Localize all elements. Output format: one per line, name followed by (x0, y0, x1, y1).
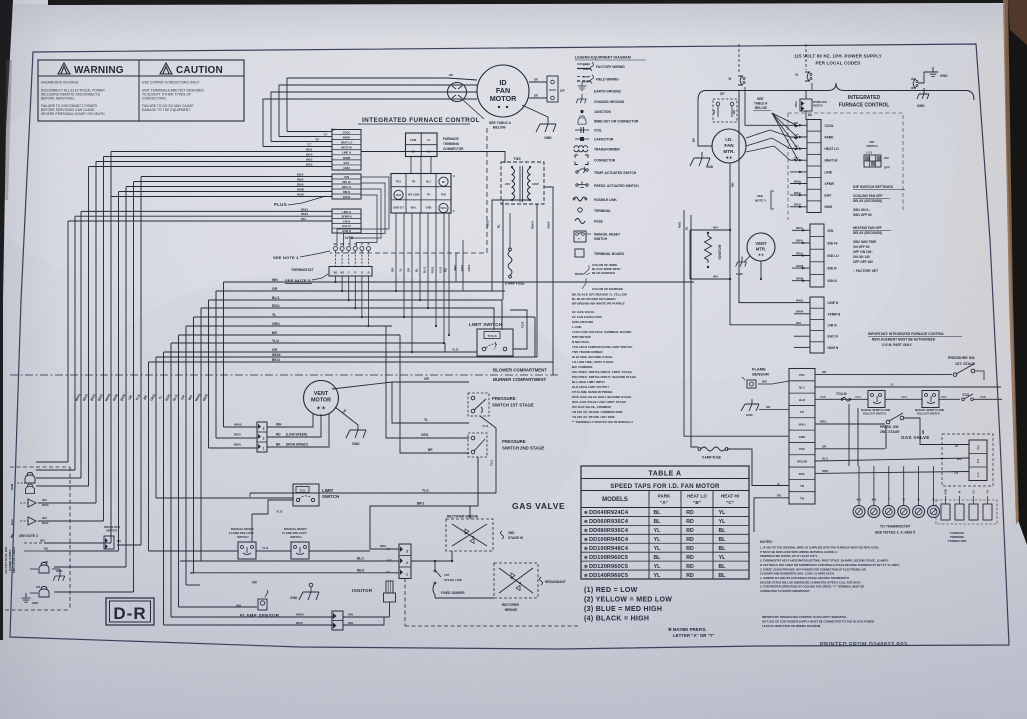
svg-text:LINE N: LINE N (828, 301, 839, 305)
svg-text:TABLE A: TABLE A (754, 102, 768, 106)
earth ground (left block) (21, 593, 31, 602)
terminal strip TB7 (PS1..TH) (789, 369, 815, 505)
svg-text:BK: BK (808, 113, 812, 117)
svg-text:✻: ✻ (584, 555, 588, 560)
svg-text:FACTORY WIRING: FACTORY WIRING (596, 65, 625, 69)
svg-text:PARK: PARK (825, 135, 835, 139)
svg-text:DD100R960C5: DD100R960C5 (589, 555, 628, 561)
svg-text:"B": "B" (315, 138, 320, 142)
svg-text:YL/4: YL/4 (901, 395, 907, 399)
svg-text:HLO: HLO (799, 398, 806, 402)
svg-text:B: B (368, 272, 370, 275)
svg-text:RD/1: RD/1 (431, 266, 435, 273)
svg-text:BRIDGE: BRIDGE (505, 608, 517, 612)
svg-text:BR/1: BR/1 (417, 502, 424, 506)
svg-text:INTEGRATED: INTEGRATED (848, 95, 881, 101)
svg-text:PER LOCAL CODES: PER LOCAL CODES (12, 547, 16, 573)
svg-text:OR: OR (36, 585, 40, 589)
interlock switch (left) (104, 525, 141, 549)
svg-text:WH/5: WH/5 (297, 193, 304, 197)
pressure switch 1st stage (right) (948, 356, 984, 380)
svg-text:SENSOR: SENSOR (752, 372, 769, 377)
svg-text:WH: WH (40, 539, 45, 543)
svg-text:1ST. STAGE: 1ST. STAGE (955, 362, 976, 366)
gas valve (right) GV (901, 435, 987, 481)
dip switch (right) (864, 140, 890, 170)
svg-text:DD100R948C4: DD100R948C4 (589, 546, 629, 552)
svg-text:1ST: 1ST (444, 573, 450, 577)
svg-text:SEE TABLE A: SEE TABLE A (489, 121, 512, 125)
svg-text:PS1: PS1 (799, 373, 805, 377)
svg-text:NL1: NL1 (426, 179, 431, 183)
svg-text:(2) YELLOW = MED LOW: (2) YELLOW = MED LOW (584, 597, 672, 604)
wire bridge1 bottom to connector (411, 506, 470, 562)
svg-text:IND N: IND N (343, 190, 350, 194)
svg-text:RD: RD (686, 564, 694, 570)
svg-text:WH: WH (731, 183, 735, 188)
plug H (796, 44, 812, 90)
svg-text:TNS: TNS (513, 157, 521, 161)
wire BR to pressure switch 2 (400, 335, 469, 453)
fuse 5 amp (698, 447, 789, 486)
svg-text:SWITCH: SWITCH (106, 529, 117, 533)
svg-text:WH/4: WH/4 (301, 212, 308, 216)
svg-text:BK/BL: BK/BL (575, 272, 585, 276)
wire OR/1 WVH to press sw 2nd stage (815, 420, 885, 425)
wire OR to pressure switch 1 (332, 382, 469, 389)
svg-text:CONNECTOR: CONNECTOR (443, 147, 464, 151)
svg-text:HEAT HI: HEAT HI (341, 146, 352, 150)
maybe prefix note (668, 627, 715, 638)
svg-text:TEMP. ACTUATED SWITCH: TEMP. ACTUATED SWITCH (594, 171, 637, 175)
svg-text:WV GAS VALVE, COMMON: WV GAS VALVE, COMMON (572, 405, 611, 409)
photo edge dark wedge left (0, 0, 13, 640)
svg-text:3: 3 (263, 427, 265, 431)
svg-text:GND: GND (746, 413, 754, 417)
svg-text:YL/5: YL/5 (521, 322, 525, 329)
svg-text:EARTH GROUND: EARTH GROUND (594, 90, 622, 94)
wire BK (left) (24, 550, 46, 552)
wire fan-out rows from LVTB area (149, 278, 695, 362)
svg-text:HEATING FAN OFF: HEATING FAN OFF (853, 226, 882, 230)
svg-text:YL/1: YL/1 (422, 489, 429, 493)
wire N neutral to TB6 (739, 90, 794, 303)
svg-text:BL/1: BL/1 (423, 266, 427, 273)
svg-text:SPEED TAPS FOR I.D. FAN MOTOR: SPEED TAPS FOR I.D. FAN MOTOR (610, 483, 720, 490)
svg-text:FURNACE: FURNACE (443, 137, 459, 141)
svg-text:SWITCH: SWITCH (866, 144, 877, 148)
svg-text:2: 2 (977, 459, 980, 465)
svg-text:BL: BL (719, 546, 727, 552)
svg-text:RD/1: RD/1 (357, 569, 364, 573)
svg-text:WH: WH (348, 613, 353, 617)
svg-text:YL: YL (654, 564, 661, 570)
svg-text:BR: BR (428, 448, 433, 452)
vent motor (right) M4 (747, 233, 775, 261)
svg-text:5. FOR PROPER OPERATION OF COO: 5. FOR PROPER OPERATION OF COOLING FAN S… (760, 585, 864, 589)
wire RD/1 chain to bridge2 (411, 573, 433, 588)
svg-text:RD: RD (686, 519, 694, 525)
svg-text:BR: BR (272, 331, 277, 335)
svg-text:BR/1: BR/1 (380, 544, 387, 548)
svg-text:GND IGT: GND IGT (393, 206, 404, 210)
svg-text:PARK: PARK (343, 136, 350, 140)
svg-text:YL: YL (719, 510, 726, 516)
svg-text:JUNCTION: JUNCTION (594, 110, 611, 114)
svg-text:DD100R945C4: DD100R945C4 (589, 537, 629, 543)
svg-text:IND LO: IND LO (828, 254, 840, 258)
svg-text:YL: YL (890, 383, 894, 387)
svg-text:SEE NOTES 2, 4, AND 5: SEE NOTES 2, 4, AND 5 (875, 531, 915, 535)
photo edge dark band top (48, 0, 1006, 5)
svg-text:BK/5: BK/5 (296, 621, 303, 625)
legend equipment diagram (572, 56, 646, 425)
svg-text:PS2: PS2 (441, 192, 446, 196)
svg-text:RD/6: RD/6 (297, 183, 304, 187)
svg-text:YL: YL (654, 537, 661, 543)
svg-text:IGN N: IGN N (828, 279, 838, 283)
svg-text:SWITCH: SWITCH (813, 105, 823, 108)
svg-text:XFMR N: XFMR N (828, 312, 841, 316)
svg-text:TCO: TCO (300, 488, 307, 492)
2nd stage hi label (493, 531, 523, 540)
TNS primary wires WH/4 BK/4 (536, 204, 538, 357)
terminal strip TB2 (IGN..IND N) (332, 174, 361, 199)
svg-text:MTR MOTOR: MTR MOTOR (572, 335, 592, 339)
speed tap plug P1 (234, 422, 267, 452)
svg-text:B/C COMMON: B/C COMMON (572, 365, 592, 369)
svg-text:(HIGH SPEED): (HIGH SPEED) (286, 443, 308, 447)
wire OR/1 to pressure switch 2 (392, 326, 469, 438)
manual reset flame rollout switch S4 (right) (915, 391, 944, 416)
svg-text:TO THERMOSTAT: TO THERMOSTAT (880, 525, 911, 529)
ignitor resistor (right) (705, 232, 723, 268)
svg-text:FP: FP (800, 410, 804, 414)
rectifier bridge 2 (redundant) (494, 563, 538, 612)
see table a note (top) (463, 100, 512, 130)
svg-text:ON OFF 60: ON OFF 60 (853, 245, 870, 249)
svg-text:TRANSFORMER: TRANSFORMER (594, 148, 620, 152)
svg-text:PS2 PRES. SWITCH INPUT, SECOND: PS2 PRES. SWITCH INPUT, SECOND STAGE (572, 375, 636, 379)
svg-text:BL: BL (685, 226, 689, 230)
svg-text:HUM: HUM (343, 166, 350, 170)
svg-text:(4) BLACK = HIGH: (4) BLACK = HIGH (584, 616, 649, 623)
earth ground GND (top right) (928, 67, 938, 76)
svg-text:115 VOLT 60 HZ. 1PH.: 115 VOLT 60 HZ. 1PH. (4, 546, 8, 574)
svg-text:5 AMP FUSE: 5 AMP FUSE (702, 456, 721, 460)
left power entry block (dashed) (4, 467, 70, 610)
svg-text:** THERMALLY PROTECTED INTERN: ** THERMALLY PROTECTED INTERNALLY (572, 420, 633, 424)
TCO switch (right) (939, 393, 1002, 401)
svg-text:115 VOLT 60 HZ. 1PH. POWER SUP: 115 VOLT 60 HZ. 1PH. POWER SUPPLY (794, 54, 882, 59)
svg-text:COOL: COOL (825, 124, 835, 128)
svg-text:IGN: IGN (344, 175, 349, 179)
svg-text:2: 2 (263, 437, 265, 441)
fuse 8 amp (505, 213, 525, 310)
svg-text:WH/4: WH/4 (272, 353, 281, 357)
svg-text:ROLLOUT SWITCH: ROLLOUT SWITCH (917, 413, 940, 416)
svg-text:HLO: HLO (396, 193, 401, 197)
svg-text:BR: BR (921, 430, 925, 434)
wire nut lower 2 (39, 587, 49, 598)
ground GND (right motor) (690, 152, 714, 169)
svg-text:PARK: PARK (658, 494, 671, 499)
svg-text:WH/4: WH/4 (531, 221, 535, 229)
svg-text:IND LO: IND LO (342, 185, 351, 189)
svg-text:COLOR OF MARKER: COLOR OF MARKER (592, 287, 624, 291)
wire YL/5 from limit switch (510, 310, 527, 349)
svg-text:BL: BL (719, 537, 727, 543)
svg-text:LEGEND-EQUIPMENT DIAGRAM: LEGEND-EQUIPMENT DIAGRAM (575, 56, 631, 60)
furnace twinning connector (406, 133, 465, 157)
svg-text:HUM N: HUM N (342, 229, 351, 233)
svg-text:WVL: WVL (799, 472, 806, 476)
svg-text:HI HI FIRE, SECOND STAGE: HI HI FIRE, SECOND STAGE (572, 355, 613, 359)
svg-text:OFF ON 100··: OFF ON 100·· (853, 250, 873, 254)
svg-text:LETTER "A" OR "T": LETTER "A" OR "T" (673, 633, 715, 638)
svg-text:BL: BL (719, 528, 727, 534)
svg-text:BR: BR (449, 73, 453, 77)
wires into TB5 (792, 226, 810, 282)
svg-text:N NEUTRAL: N NEUTRAL (572, 340, 590, 344)
svg-text:GAS VALVE: GAS VALVE (512, 501, 565, 511)
svg-text:XFMR: XFMR (343, 156, 351, 160)
svg-text:RD: RD (686, 573, 694, 579)
svg-text:WARNING: WARNING (74, 65, 124, 76)
svg-text:YL/2: YL/2 (276, 510, 283, 514)
svg-text:OFF: OFF (884, 166, 890, 170)
wires twinning to grid (410, 157, 412, 174)
svg-text:1 2 3: 1 2 3 (866, 151, 873, 155)
svg-text:CONDUCTORS.: CONDUCTORS. (142, 96, 167, 100)
svg-text:✶✶: ✶✶ (725, 155, 733, 160)
svg-text:HI: HI (955, 444, 958, 448)
svg-text:RD/5: RD/5 (234, 433, 241, 437)
warning-caution box (38, 60, 244, 121)
svg-text:PS1 PRES. SWITCH INPUT, FIRST: PS1 PRES. SWITCH INPUT, FIRST STAGE (572, 370, 632, 374)
svg-text:TERMINAL: TERMINAL (594, 209, 611, 213)
svg-text:GND: GND (290, 596, 298, 600)
svg-text:TR 24V AC TRANS. COMMON SIDE: TR 24V AC TRANS. COMMON SIDE (572, 410, 623, 414)
gas valve assembly dashed outline (405, 560, 845, 626)
svg-text:TNS TRANSFORMER: TNS TRANSFORMER (572, 350, 603, 354)
svg-text:HEAT HI: HEAT HI (721, 494, 739, 499)
svg-text:W1: W1 (334, 272, 338, 275)
dip switch settings text (853, 185, 905, 273)
D-R designation box (106, 598, 154, 625)
svg-text:"C": "C" (794, 156, 799, 160)
svg-text:BK: BK (276, 443, 281, 447)
svg-text:TH: TH (987, 490, 990, 493)
svg-text:RD: RD (276, 433, 281, 437)
svg-text:YL/7: YL/7 (941, 395, 947, 399)
svg-text:BK/3: BK/3 (306, 163, 313, 167)
svg-text:WH: WH (272, 278, 278, 282)
svg-text:DD140R960C5: DD140R960C5 (589, 573, 628, 579)
svg-text:SEE: SEE (757, 97, 763, 101)
svg-text:COOL: COOL (343, 131, 351, 135)
svg-text:SW1 ON 0--: SW1 ON 0-- (853, 208, 870, 212)
svg-text:(3) BLUE = MED HIGH: (3) BLUE = MED HIGH (584, 606, 662, 613)
svg-text:LINE: LINE (825, 170, 833, 174)
svg-text:TCO-6: TCO-6 (488, 334, 497, 338)
svg-text:OR: OR (424, 377, 429, 381)
terminal strip TB6 right (LINE N..HUM N) (810, 297, 841, 353)
svg-text:WH: WH (348, 621, 353, 625)
svg-text:TERMINAL BOARD: TERMINAL BOARD (594, 252, 625, 256)
wires vent motor to TB5 (775, 242, 810, 244)
svg-text:ON ON 140: ON ON 140 (853, 255, 870, 259)
svg-text:✻: ✻ (584, 564, 588, 569)
svg-text:FLAME SENSOR: FLAME SENSOR (240, 613, 280, 618)
left feeder verticals (right section) (678, 210, 790, 498)
svg-text:RD/6: RD/6 (796, 251, 803, 255)
svg-text:B/C: B/C (387, 559, 393, 563)
svg-text:DIP SWITCH SETTINGS: DIP SWITCH SETTINGS (853, 185, 894, 189)
svg-text:LO: LO (973, 490, 976, 493)
svg-text:COM: COM (945, 489, 948, 495)
svg-text:CONNECTED TO ROOM THERMOSTAT.: CONNECTED TO ROOM THERMOSTAT. (760, 589, 810, 593)
svg-text:SEE NOTE 4: SEE NOTE 4 (273, 255, 299, 260)
svg-text:W2: W2 (340, 243, 344, 246)
wires ID fan motor to connector (448, 73, 477, 99)
svg-text:R: R (354, 272, 356, 275)
svg-text:HEAT LO: HEAT LO (341, 141, 353, 145)
svg-text:OR/1: OR/1 (272, 322, 280, 326)
photo edge dark wedge right with table edge (1005, 0, 1027, 545)
svg-text:GND: GND (56, 569, 62, 573)
wires into TB6 (794, 298, 810, 347)
svg-text:WH/1: WH/1 (796, 298, 804, 302)
igniter IGN (352, 581, 396, 617)
svg-text:FIELD WIRING: FIELD WIRING (596, 78, 619, 82)
svg-text:XFMR N: XFMR N (342, 215, 352, 219)
pressure switch PS2 2nd stage (468, 433, 545, 457)
svg-text:IGNITOR: IGNITOR (718, 244, 722, 259)
svg-text:BR: BR (534, 78, 538, 82)
wires BK/1 BK/2 BK/3 from TB1 to bundle (89, 148, 333, 167)
svg-text:GND: GND (940, 74, 948, 78)
svg-text:WH/1: WH/1 (301, 207, 308, 211)
svg-text:WH/5: WH/5 (296, 613, 304, 617)
svg-text:GND: GND (706, 165, 714, 169)
wire loop TB1 to ID fan motor (263, 78, 448, 147)
svg-text:✶✶: ✶✶ (316, 405, 326, 412)
svg-text:CONNECTOR: CONNECTOR (594, 159, 616, 163)
ground GND (vent motor) (346, 430, 366, 438)
svg-text:WH: WH (733, 110, 736, 114)
svg-text:BR: BR (534, 94, 538, 98)
connector grid J1 (391, 174, 455, 214)
svg-text:CIR N: CIR N (343, 219, 350, 223)
svg-text:✻: ✻ (584, 546, 588, 551)
capacitor CF (right) (713, 92, 737, 122)
svg-text:PRESSURE: PRESSURE (502, 439, 526, 444)
TNS secondary wires RD/2 BL (492, 200, 512, 291)
svg-text:IT MUST BE REPLACED WITH WIRIN: IT MUST BE REPLACED WITH WIRING MATERIAL… (760, 550, 837, 554)
svg-text:PER LOCAL CODES: PER LOCAL CODES (815, 61, 860, 66)
svg-text:WH: WH (42, 498, 47, 502)
svg-text:SWITCH: SWITCH (322, 494, 339, 499)
svg-text:OR/1: OR/1 (820, 420, 827, 424)
long verticals TCO-B to thermostat (849, 399, 858, 466)
svg-text:GND: GND (736, 272, 744, 276)
svg-text:GND: GND (544, 136, 552, 140)
svg-text:BL: BL (719, 564, 727, 570)
notes list (760, 540, 900, 593)
capacitor CF (top) (529, 76, 565, 102)
svg-text:DD060R936C4: DD060R936C4 (589, 519, 629, 525)
svg-text:IND HI: IND HI (828, 241, 838, 245)
1st stage low switch (434, 561, 462, 582)
svg-text:ROLLOUT SWITCH: ROLLOUT SWITCH (863, 413, 886, 416)
svg-text:BLUE MARKER: BLUE MARKER (592, 271, 616, 275)
limit switch TCO-6 (469, 322, 513, 356)
svg-text:"B": "B" (693, 500, 701, 505)
svg-text:SW2 SW3 TIME: SW2 SW3 TIME (853, 240, 876, 244)
furnace twinning connector (right) (936, 489, 997, 543)
svg-text:WH/4: WH/4 (796, 310, 804, 314)
svg-text:3: 3 (977, 446, 980, 452)
wire LINE row from H plug (811, 90, 813, 96)
wire nut lower 1 (39, 563, 49, 574)
svg-text:BK: BK (331, 128, 335, 132)
see table a (right) (753, 97, 798, 162)
svg-text:RD/1: RD/1 (822, 469, 829, 473)
svg-text:BK/6: BK/6 (796, 239, 803, 243)
svg-text:WIRE NUT OR CONNECTOR: WIRE NUT OR CONNECTOR (594, 120, 639, 124)
svg-text:BL: BL (654, 519, 662, 525)
vent motor M2 (304, 381, 339, 416)
svg-text:BELOW: BELOW (493, 126, 506, 130)
svg-text:SWITCH 2ND STAGE: SWITCH 2ND STAGE (502, 446, 545, 451)
svg-text:CL: CL (427, 138, 431, 142)
wire OR with terminal and ground (bottom) (200, 581, 319, 601)
svg-text:BK/4: BK/4 (306, 153, 313, 157)
svg-text:RD: RD (686, 537, 694, 543)
svg-text:NOTES:: NOTES: (760, 540, 773, 544)
svg-text:STAGE LOW: STAGE LOW (444, 578, 462, 582)
HI B/C LO connector (386, 544, 411, 579)
blower-burner compartment boundary (10, 368, 558, 383)
svg-text:EAC: EAC (344, 161, 350, 165)
svg-text:WH/6: WH/6 (297, 188, 304, 192)
svg-text:YL: YL (424, 418, 428, 422)
svg-text:BR BROWN WH WHITE PR PUR: BR BROWN WH WHITE PR PURPLE (572, 301, 625, 305)
HLO row TCO-B chain (815, 392, 868, 401)
transformer TNS (501, 157, 544, 204)
svg-text:R: R (354, 243, 356, 246)
svg-text:CF FAN CAPACITOR: CF FAN CAPACITOR (572, 315, 602, 319)
svg-text:LINE H: LINE H (342, 151, 351, 155)
wire YL/1 long row (250, 492, 496, 494)
svg-text:PRESS. SW.: PRESS. SW. (880, 425, 899, 429)
svg-text:FAN: FAN (724, 143, 734, 148)
svg-text:1. IF ANY OF THE ORIGINAL WIRE: 1. IF ANY OF THE ORIGINAL WIRE AS SUPPLI… (760, 546, 879, 550)
svg-text:✻: ✻ (584, 528, 588, 533)
svg-text:WH: WH (762, 380, 767, 384)
vent motor leads to speed plug (267, 414, 329, 447)
svg-text:WH: WH (796, 321, 801, 325)
svg-text:BL: BL (654, 510, 662, 516)
svg-text:G: G (361, 243, 363, 246)
svg-text:GND: GND (917, 104, 925, 108)
svg-text:1: 1 (263, 447, 265, 451)
svg-text:OR: OR (252, 581, 257, 585)
svg-text:?: ? (578, 238, 580, 242)
svg-text:I.D.: I.D. (725, 137, 732, 142)
svg-text:IMPORTANT: INTEGRATED CONTROL: IMPORTANT: INTEGRATED CONTROL IS POLARIT… (762, 615, 847, 619)
